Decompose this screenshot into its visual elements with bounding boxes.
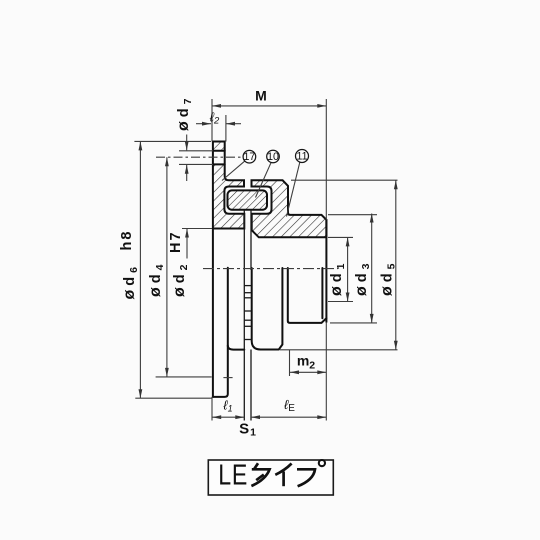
svg-text:h8: h8 <box>119 230 135 251</box>
svg-text:11: 11 <box>297 150 308 162</box>
svg-text:17: 17 <box>244 151 256 163</box>
svg-text:M: M <box>255 88 267 104</box>
svg-text:10: 10 <box>267 151 279 163</box>
svg-text:H7: H7 <box>168 230 184 253</box>
svg-text:LE: LE <box>218 458 248 491</box>
